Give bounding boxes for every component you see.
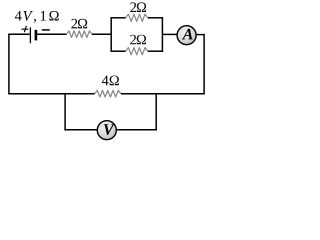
battery B1 negative plate (short thick): [35, 30, 38, 41]
wire: bottom branch left: [111, 50, 126, 52]
resistor R3 label 2 ohm: [130, 35, 146, 45]
wire: voltmeter branch bottom-left: [64, 129, 97, 131]
battery B1 positive plate (long thin): [29, 27, 31, 43]
wire: battery to resistor R1: [37, 33, 67, 35]
parallel box left bar: [110, 17, 112, 52]
wire: top branch left: [111, 17, 126, 19]
resistor R4 4 ohm zigzag: [95, 90, 121, 97]
ammeter A1 letter: [182, 29, 193, 40]
wire: top branch right: [148, 17, 163, 19]
wire: voltmeter branch left vertical: [64, 94, 66, 131]
battery plus sign: [22, 26, 28, 31]
voltmeter V1 letter: [104, 124, 115, 135]
wire: ammeter to top-right corner: [196, 34, 204, 36]
resistor R1 label 2 ohm: [71, 19, 87, 29]
resistor R4 label 4 ohm: [102, 76, 119, 86]
battery minus sign: [42, 29, 50, 31]
wire: box to ammeter: [162, 33, 177, 35]
ammeter A1 body: [177, 26, 196, 45]
voltmeter V1 body: [97, 121, 116, 140]
wire: bottom branch right: [148, 50, 163, 52]
resistor R2 label 2 ohm: [130, 2, 146, 12]
wire: right vertical: [203, 34, 205, 94]
wire: bottom left segment: [8, 93, 95, 95]
wire: voltmeter branch bottom-right: [117, 129, 157, 131]
parallel box right bar: [161, 17, 163, 52]
resistor R2 2 ohm zigzag (top branch): [126, 14, 148, 21]
wire: left vertical (top-left corner down to bottom-left corner): [8, 34, 10, 93]
resistor R3 2 ohm zigzag (bottom branch): [126, 48, 148, 55]
resistor R1 2 ohm zigzag: [66, 31, 92, 38]
battery label 4V, 1Ohm: [15, 11, 59, 23]
wire: top-left segment to battery: [8, 33, 30, 35]
wire: R1 to parallel box: [92, 33, 111, 35]
wire: bottom right segment: [121, 93, 205, 95]
wire: voltmeter branch right vertical: [155, 94, 157, 131]
